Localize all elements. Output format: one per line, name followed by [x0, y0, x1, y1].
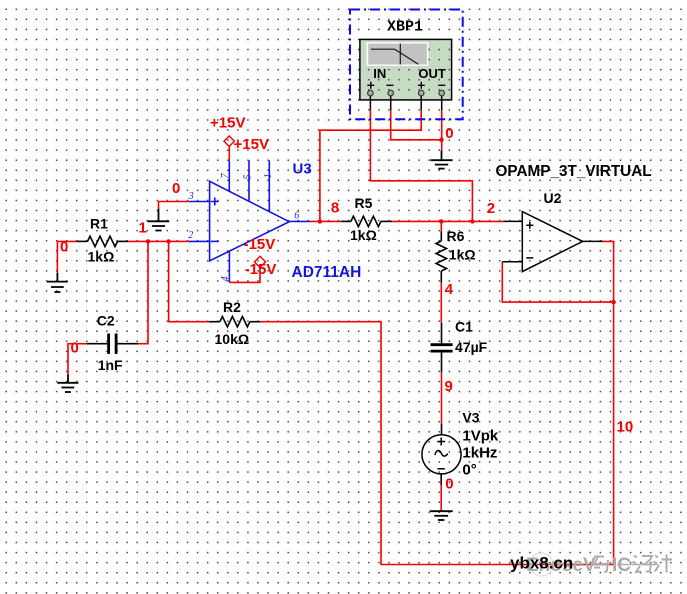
svg-text:AD711AH: AD711AH — [292, 264, 362, 281]
svg-text:0°: 0° — [462, 462, 476, 479]
resistor R1 — [77, 236, 128, 246]
wire net0 R1 left to ground — [57, 241, 77, 272]
svg-text:1kΩ: 1kΩ — [350, 227, 377, 243]
wire net0 C2 left to ground — [68, 344, 86, 375]
XBP1 body — [360, 39, 452, 100]
XBP1 terminal IN+ — [368, 90, 374, 96]
ground at U3 pin3 — [148, 209, 170, 231]
svg-text:47µF: 47µF — [455, 339, 488, 355]
wire XBP1 IN- to ground net — [391, 110, 442, 140]
svg-text:10: 10 — [617, 419, 634, 436]
junction net2-R6 — [439, 219, 443, 223]
wire net2 R6 top stub — [440, 221, 442, 231]
wire net0 U3 pin3 to ground — [159, 202, 190, 210]
svg-text:1: 1 — [139, 220, 147, 237]
wire -15V supply to pin4 — [229, 267, 260, 282]
wire R2 right to bottom rail — [260, 322, 613, 565]
svg-text:0: 0 — [445, 476, 453, 493]
svg-text:U3: U3 — [293, 161, 312, 178]
svg-text:0: 0 — [172, 180, 180, 197]
op-amp U2 — [502, 212, 603, 272]
junction net1-R2 — [166, 239, 170, 243]
XBP1 bode curve — [371, 49, 419, 64]
svg-text:OPAMP_3T_VIRTUAL: OPAMP_3T_VIRTUAL — [496, 163, 652, 180]
power -15V symbol — [254, 256, 265, 267]
svg-text:R5: R5 — [355, 195, 373, 211]
ground near R1 — [47, 273, 68, 292]
svg-text:ybx8.cn: ybx8.cn — [510, 554, 573, 573]
XBP1 screen — [367, 42, 429, 66]
junction net2-IN+ — [470, 219, 474, 223]
resistor R2 — [209, 317, 260, 327]
wire net4 R6 bottom to C1 — [440, 283, 442, 323]
svg-text:1: 1 — [263, 173, 274, 178]
svg-text:U2: U2 — [544, 190, 562, 206]
ground near C2 — [57, 374, 78, 392]
svg-text:1Vpk: 1Vpk — [462, 428, 499, 445]
XBP1 terminal stubs — [370, 96, 441, 110]
svg-text:OUT: OUT — [418, 66, 446, 81]
svg-text:9: 9 — [445, 378, 453, 395]
wire XBP1 OUT- to ground junction — [441, 110, 443, 150]
power +15V symbol — [224, 136, 234, 146]
wire XBP1 IN+ down to net2 — [370, 110, 472, 221]
svg-text:-15V: -15V — [245, 261, 277, 278]
XBP1 terminal IN- — [388, 90, 394, 96]
ground below V3 — [430, 510, 453, 520]
wire net9 C1 to V3 — [441, 372, 443, 424]
wire +15V supply stem — [228, 146, 230, 160]
svg-text:R6: R6 — [447, 228, 465, 244]
svg-text:R1: R1 — [90, 216, 108, 232]
resistor R6 vertical — [436, 231, 446, 283]
svg-text:1kΩ: 1kΩ — [88, 249, 115, 265]
resistor R5 — [341, 216, 392, 226]
svg-text:6: 6 — [294, 211, 299, 222]
junction net10 feedback — [611, 300, 615, 304]
capacitor C2 — [86, 334, 138, 354]
watermark strike line — [617, 564, 658, 566]
XBP1 terminal OUT- — [439, 90, 445, 96]
svg-text:1nF: 1nF — [98, 357, 123, 373]
wire net8 riser to XBP1 OUT+ — [320, 110, 421, 221]
wire U2 feedback — [502, 262, 613, 302]
XBP1 cursor — [399, 44, 401, 65]
svg-text:1kHz: 1kHz — [462, 445, 497, 462]
svg-text:C2: C2 — [97, 313, 115, 329]
XBP1 terminal marks — [367, 82, 445, 89]
svg-text:-15V: -15V — [244, 236, 276, 253]
wire net0 V3 bottom to ground — [440, 485, 442, 510]
junction net8 — [318, 219, 322, 223]
wire net10 U2 output down right side — [603, 241, 614, 564]
svg-text:R2: R2 — [223, 299, 241, 315]
svg-text:IN: IN — [373, 66, 386, 81]
svg-text:8: 8 — [331, 200, 339, 217]
wire net8 U3 output to R5 — [310, 220, 341, 222]
source V3 — [422, 424, 461, 485]
svg-text:XBP1: XBP1 — [387, 19, 423, 36]
wire net1 branch to R2 — [169, 241, 209, 321]
svg-text:+15V: +15V — [210, 115, 245, 132]
svg-text:4: 4 — [445, 281, 454, 298]
svg-text:0: 0 — [71, 340, 79, 357]
junction net0 XBP1 — [439, 138, 443, 142]
wire net2 R5 right to U2 — [392, 220, 503, 222]
svg-text:0: 0 — [60, 239, 68, 256]
watermark stamp circle — [530, 553, 553, 576]
svg-text:1kΩ: 1kΩ — [449, 247, 476, 263]
capacitor C1 vertical — [431, 323, 453, 372]
svg-text:10kΩ: 10kΩ — [215, 331, 250, 347]
svg-text:2: 2 — [487, 200, 495, 217]
junction net1-C2 — [146, 239, 150, 243]
svg-text:2: 2 — [188, 230, 193, 241]
svg-text:+15V: +15V — [234, 136, 269, 153]
ground below XBP1 — [431, 150, 453, 168]
svg-text:3: 3 — [188, 191, 194, 202]
svg-text:V3: V3 — [462, 410, 479, 426]
svg-text:0: 0 — [445, 125, 453, 142]
XBP1 selection box — [350, 10, 463, 120]
op-amp U3 — [189, 160, 310, 282]
svg-text:C1: C1 — [455, 319, 473, 335]
svg-text:5: 5 — [243, 175, 254, 180]
svg-text:IC: IC — [612, 555, 631, 576]
XBP1 terminal OUT+ — [418, 90, 424, 96]
wire net1 branch to C2 — [138, 241, 148, 343]
wire net1 horizontal R1 right to U3 pin2 — [128, 240, 189, 242]
svg-text:4: 4 — [220, 276, 231, 281]
